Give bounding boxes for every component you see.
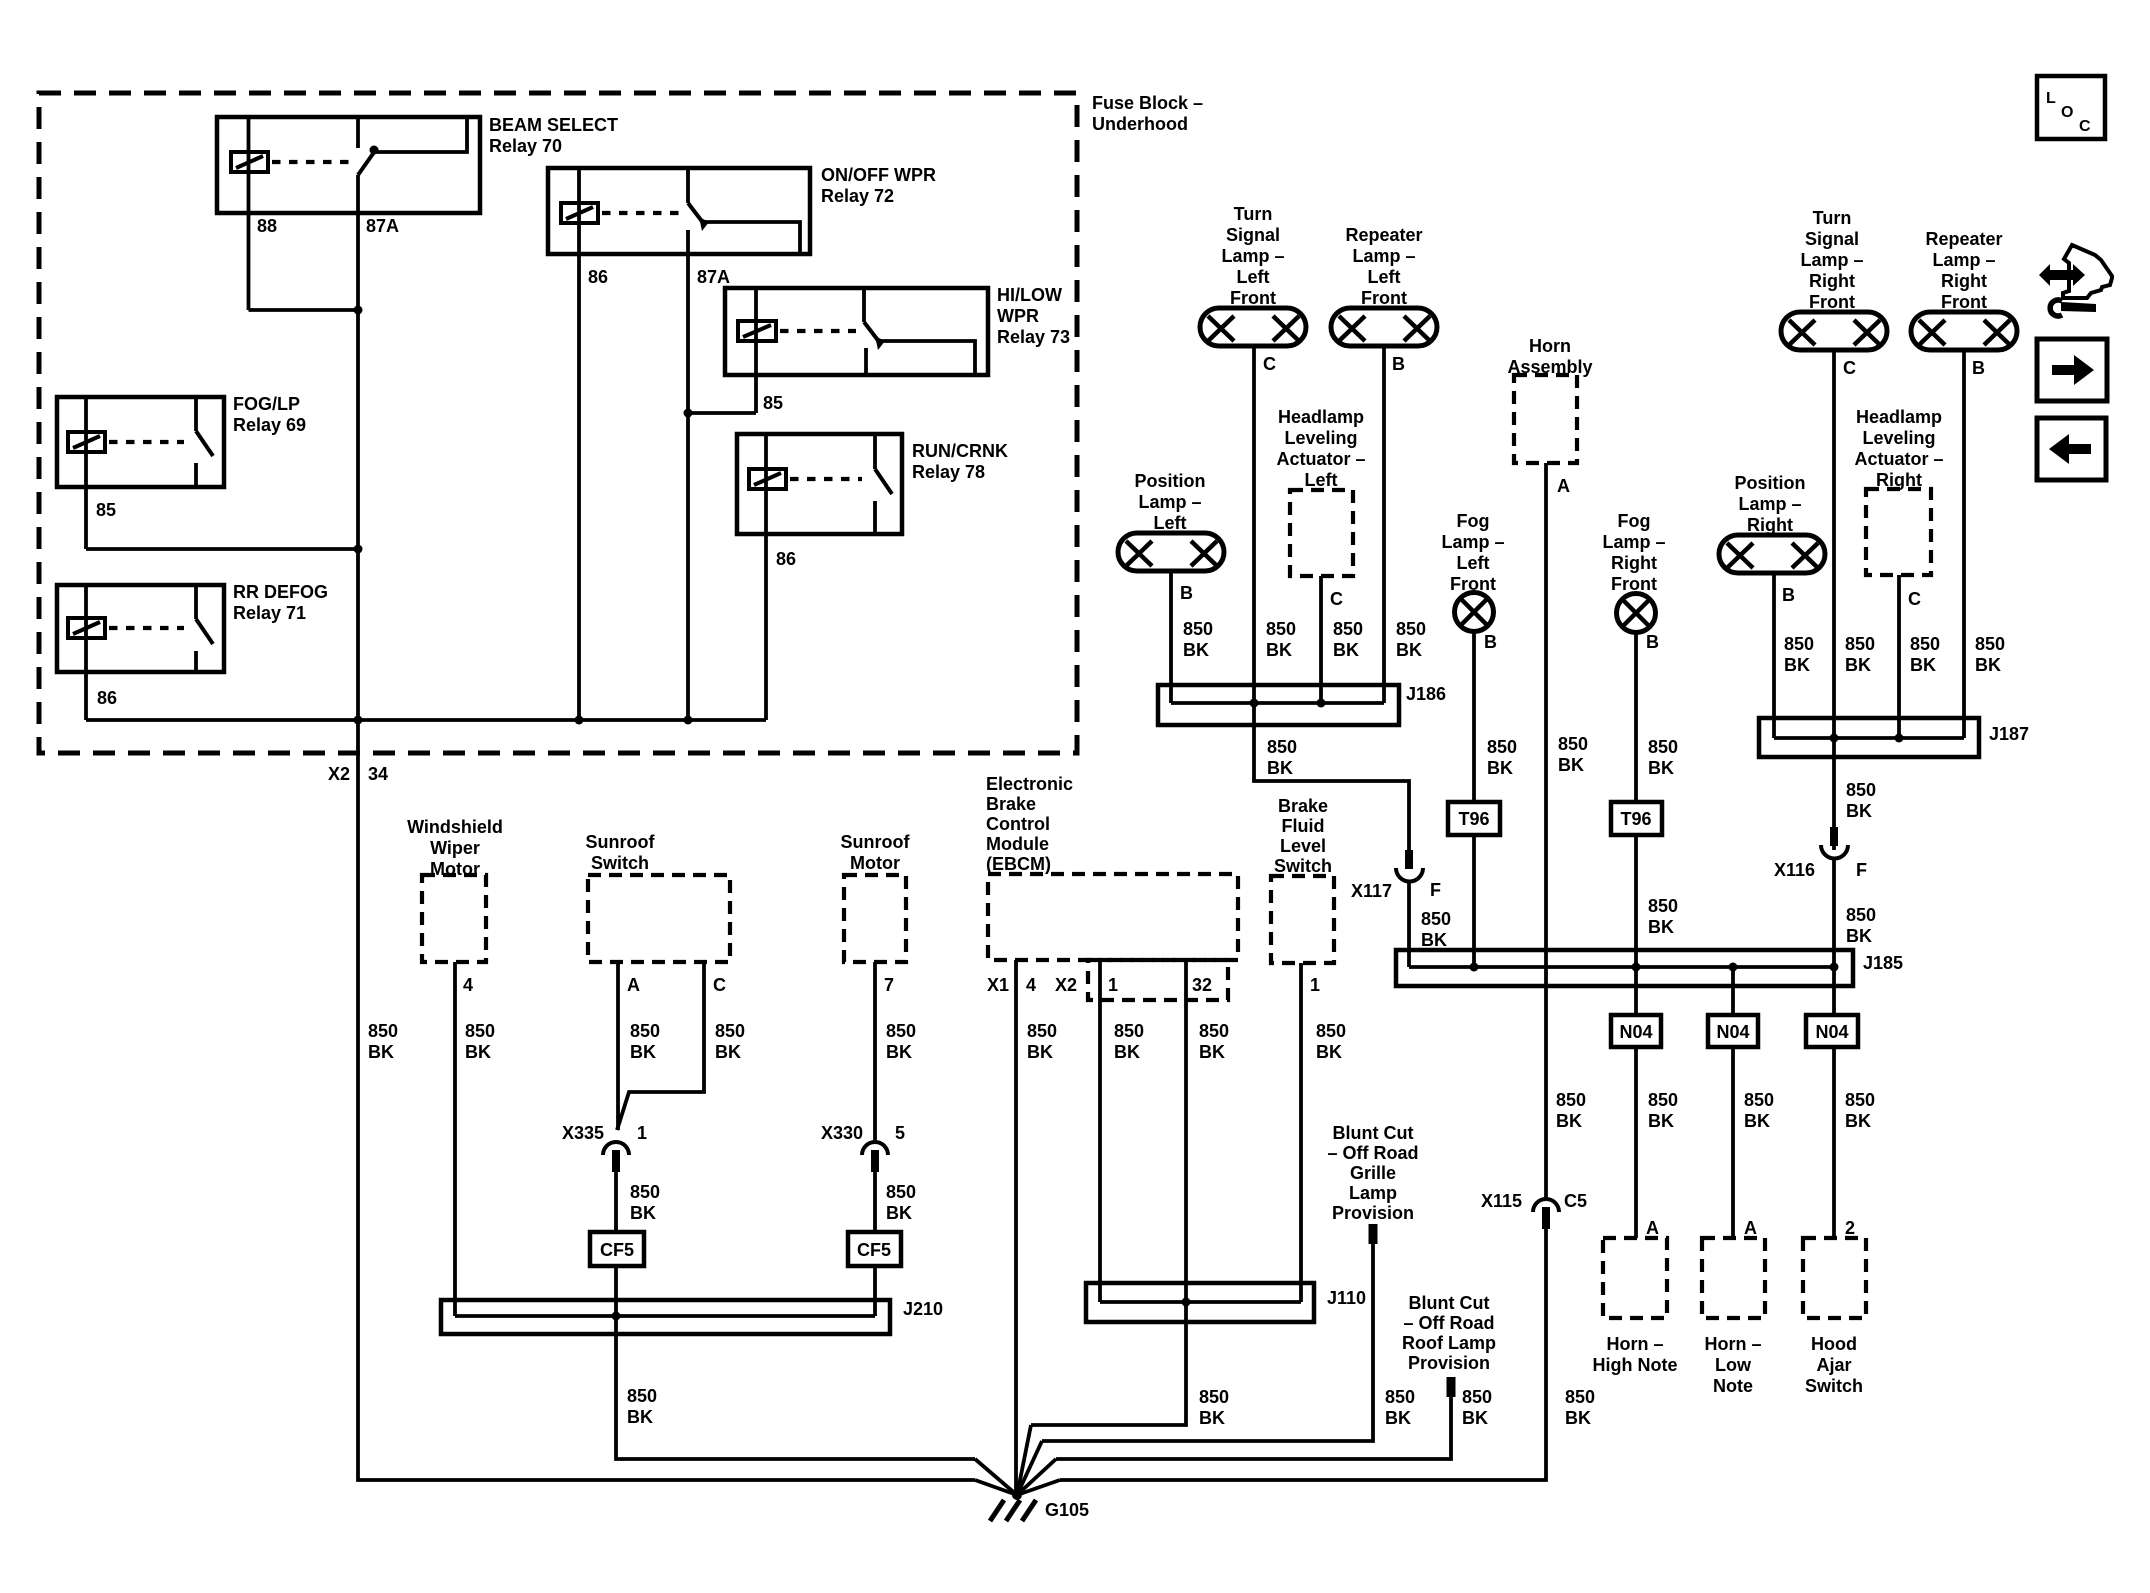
ground G105 symbol bbox=[990, 1490, 1036, 1521]
wire turn signal R to J187 bbox=[1832, 350, 1836, 738]
svg-text:Relay 70: Relay 70 bbox=[489, 136, 562, 156]
wire N04-2 to horn low note bbox=[1731, 1047, 1735, 1238]
relay K78 pin 86 line bbox=[764, 434, 768, 720]
svg-text:850: 850 bbox=[1845, 1090, 1875, 1110]
relay K69 coil bbox=[68, 432, 105, 452]
svg-text:BK: BK bbox=[1462, 1408, 1488, 1428]
wire fog L to T96 bbox=[1472, 632, 1476, 802]
svg-text:Position: Position bbox=[1135, 471, 1206, 491]
svg-text:X330: X330 bbox=[821, 1123, 863, 1143]
wire J185 to N04-2 bbox=[1731, 967, 1735, 1015]
relay K72 switch stub bbox=[686, 168, 690, 203]
svg-text:Lamp –: Lamp – bbox=[1352, 246, 1415, 266]
svg-text:C: C bbox=[1330, 589, 1343, 609]
svg-text:C5: C5 bbox=[1564, 1191, 1587, 1211]
svg-text:– Off Road: – Off Road bbox=[1327, 1143, 1418, 1163]
svg-text:2: 2 bbox=[1845, 1218, 1855, 1238]
svg-text:850: 850 bbox=[1267, 737, 1297, 757]
diagnostic icon double arrow bbox=[2039, 264, 2085, 286]
svg-text:1: 1 bbox=[1310, 975, 1320, 995]
svg-text:BK: BK bbox=[1183, 640, 1209, 660]
svg-text:J187: J187 bbox=[1989, 724, 2029, 744]
svg-text:BK: BK bbox=[1385, 1408, 1411, 1428]
svg-text:850: 850 bbox=[1558, 734, 1588, 754]
svg-text:X115: X115 bbox=[1481, 1191, 1522, 1211]
svg-text:Leveling: Leveling bbox=[1284, 428, 1357, 448]
svg-text:850: 850 bbox=[715, 1021, 745, 1041]
svg-text:Control: Control bbox=[986, 814, 1050, 834]
relay K70 switch stub bbox=[356, 117, 360, 148]
svg-text:B: B bbox=[1392, 354, 1405, 374]
svg-text:Repeater: Repeater bbox=[1925, 229, 2002, 249]
svg-text:BK: BK bbox=[1556, 1111, 1582, 1131]
svg-text:850: 850 bbox=[1846, 905, 1876, 925]
junction dot J185/N04-2 bbox=[1729, 963, 1738, 972]
svg-text:850: 850 bbox=[1845, 634, 1875, 654]
svg-text:A: A bbox=[627, 975, 640, 995]
svg-text:– Off Road: – Off Road bbox=[1403, 1313, 1494, 1333]
relay K72 pin 87 link bbox=[703, 222, 800, 254]
J110 internal bus bbox=[1100, 1300, 1301, 1304]
svg-text:Lamp –: Lamp – bbox=[1441, 532, 1504, 552]
wire blunt cut grille to ground run bbox=[1042, 1244, 1373, 1441]
hood ajar switch dashed box bbox=[1803, 1238, 1866, 1318]
sunroof switch dashed box bbox=[588, 875, 730, 962]
junction dot J187/actuator R bbox=[1895, 734, 1904, 743]
svg-text:BK: BK bbox=[1421, 930, 1447, 950]
svg-text:L: L bbox=[2046, 90, 2056, 107]
svg-text:Front: Front bbox=[1361, 288, 1407, 308]
svg-text:BK: BK bbox=[1114, 1042, 1140, 1062]
svg-text:Ajar: Ajar bbox=[1816, 1355, 1851, 1375]
relay K69 switch stub bbox=[194, 397, 198, 431]
relay K73 HI/LOW WPR box bbox=[725, 288, 988, 375]
svg-text:BK: BK bbox=[1846, 801, 1872, 821]
svg-text:Left: Left bbox=[1457, 553, 1490, 573]
relay K70 switch arm bbox=[358, 148, 377, 175]
relay K72 common 87A wire down bbox=[686, 230, 690, 720]
svg-text:850: 850 bbox=[886, 1182, 916, 1202]
svg-text:C: C bbox=[1263, 354, 1276, 374]
relay K70 coil bbox=[231, 152, 268, 172]
turn signal lamp right front symbol bbox=[1781, 312, 1887, 350]
svg-text:850: 850 bbox=[627, 1386, 657, 1406]
svg-text:Motor: Motor bbox=[430, 859, 480, 879]
svg-text:BK: BK bbox=[1648, 1111, 1674, 1131]
svg-text:A: A bbox=[1646, 1218, 1659, 1238]
ground bus inside fuse block bbox=[86, 718, 766, 722]
svg-text:B: B bbox=[1972, 358, 1985, 378]
splice pack J187 bbox=[1759, 718, 1979, 757]
svg-text:J110: J110 bbox=[1327, 1288, 1366, 1308]
brake fluid level switch dashed box bbox=[1271, 876, 1334, 963]
svg-text:Headlamp: Headlamp bbox=[1856, 407, 1942, 427]
svg-text:Sunroof: Sunroof bbox=[586, 832, 656, 852]
wire X335 to CF5 bbox=[614, 1172, 618, 1232]
svg-text:850: 850 bbox=[1199, 1021, 1229, 1041]
svg-text:1: 1 bbox=[637, 1123, 647, 1143]
junction dot J185/T96 L bbox=[1470, 963, 1479, 972]
svg-text:87A: 87A bbox=[697, 267, 730, 287]
svg-text:BK: BK bbox=[1199, 1042, 1225, 1062]
svg-text:Provision: Provision bbox=[1408, 1353, 1490, 1373]
svg-text:86: 86 bbox=[776, 549, 796, 569]
wire blunt cut roof to ground run bbox=[1056, 1397, 1451, 1459]
svg-text:850: 850 bbox=[1648, 896, 1678, 916]
svg-text:Provision: Provision bbox=[1332, 1203, 1414, 1223]
svg-text:B: B bbox=[1646, 632, 1659, 652]
fuse T96 (fog lamp right) bbox=[1611, 802, 1662, 835]
svg-text:T96: T96 bbox=[1620, 809, 1651, 829]
splice pack J185 bbox=[1396, 950, 1853, 986]
wire K69 pin85 to trunk bbox=[86, 547, 358, 551]
fuse CF5 (sunroof motor) bbox=[848, 1232, 901, 1266]
svg-text:BK: BK bbox=[1266, 640, 1292, 660]
junction dot J110/X2-32 bbox=[1182, 1298, 1191, 1307]
relay K78 lower contact stub bbox=[873, 501, 877, 534]
svg-text:Relay 72: Relay 72 bbox=[821, 186, 894, 206]
svg-text:850: 850 bbox=[1744, 1090, 1774, 1110]
svg-text:WPR: WPR bbox=[997, 306, 1039, 326]
junction dot J210/sunroof switch wire bbox=[612, 1312, 621, 1321]
svg-text:N04: N04 bbox=[1619, 1022, 1652, 1042]
svg-text:850: 850 bbox=[886, 1021, 916, 1041]
relay K69 FOG/LP box bbox=[57, 397, 224, 487]
backward arrow icon box bbox=[2037, 418, 2106, 480]
wire X116 to J185 bbox=[1832, 859, 1836, 967]
fuse block underhood dashed enclosure bbox=[39, 93, 1077, 753]
svg-text:B: B bbox=[1484, 632, 1497, 652]
svg-text:Left: Left bbox=[1305, 470, 1338, 490]
svg-text:BK: BK bbox=[1396, 640, 1422, 660]
junction dot J185/X116 bbox=[1830, 963, 1839, 972]
relay K72 switch arm tip bbox=[699, 217, 709, 231]
svg-text:T96: T96 bbox=[1458, 809, 1489, 829]
svg-text:4: 4 bbox=[463, 975, 473, 995]
relay K72 switch arm bbox=[688, 203, 704, 224]
relay K73 switch stub bbox=[862, 288, 866, 322]
wire horn assembly through J185 to X115 bbox=[1544, 463, 1548, 1200]
svg-text:Underhood: Underhood bbox=[1092, 114, 1188, 134]
svg-text:Switch: Switch bbox=[1274, 856, 1332, 876]
junction dot J186/actuator L bbox=[1317, 699, 1326, 708]
svg-text:Switch: Switch bbox=[591, 853, 649, 873]
svg-text:4: 4 bbox=[1026, 975, 1036, 995]
ground fan-in diagonals to G105 bbox=[975, 1459, 1017, 1495]
forward arrow bbox=[2052, 355, 2094, 385]
position lamp right symbol bbox=[1719, 535, 1825, 573]
svg-text:Roof Lamp: Roof Lamp bbox=[1402, 1333, 1496, 1353]
svg-text:850: 850 bbox=[1266, 619, 1296, 639]
wire BFLS to J110 bbox=[1299, 963, 1303, 1302]
svg-text:BK: BK bbox=[1648, 758, 1674, 778]
svg-text:C: C bbox=[1843, 358, 1856, 378]
svg-text:Right: Right bbox=[1747, 515, 1793, 535]
wire sunroof switch pin C bbox=[617, 962, 704, 1130]
svg-text:Lamp –: Lamp – bbox=[1138, 492, 1201, 512]
relay K72 ON/OFF WPR box bbox=[548, 168, 810, 254]
repeater lamp right front symbol bbox=[1911, 312, 2017, 350]
relay K73 coil bbox=[738, 321, 776, 341]
svg-text:BK: BK bbox=[1558, 755, 1584, 775]
svg-text:C: C bbox=[1908, 589, 1921, 609]
location icon box LOC bbox=[2037, 76, 2105, 139]
svg-text:Blunt Cut: Blunt Cut bbox=[1409, 1293, 1490, 1313]
svg-text:BK: BK bbox=[630, 1203, 656, 1223]
svg-text:BK: BK bbox=[630, 1042, 656, 1062]
junction dot J185/fog R bbox=[1632, 963, 1641, 972]
wire CF5 to J210 bbox=[873, 1266, 877, 1316]
repeater lamp left front symbol bbox=[1331, 308, 1437, 346]
connector X115 bbox=[1533, 1199, 1559, 1229]
fuse T96 (fog lamp left) bbox=[1448, 802, 1500, 835]
svg-text:34: 34 bbox=[368, 764, 388, 784]
wire X115 to ground run bbox=[1060, 1229, 1546, 1480]
svg-text:FOG/LP: FOG/LP bbox=[233, 394, 300, 414]
svg-text:BK: BK bbox=[1199, 1408, 1225, 1428]
diagnostic icon outline shape bbox=[2063, 245, 2112, 298]
svg-text:85: 85 bbox=[96, 500, 116, 520]
diagnostic icon wrench bbox=[2050, 300, 2096, 316]
relay K71 RR DEFOG box bbox=[57, 585, 224, 672]
svg-text:X2: X2 bbox=[1055, 975, 1077, 995]
relay K73 switch arm bbox=[864, 322, 880, 343]
relay K78 switch arm bbox=[875, 469, 892, 494]
svg-text:32: 32 bbox=[1192, 975, 1212, 995]
svg-text:BK: BK bbox=[886, 1042, 912, 1062]
wire position R to J187 bbox=[1772, 573, 1776, 738]
svg-text:850: 850 bbox=[465, 1021, 495, 1041]
svg-text:J185: J185 bbox=[1863, 953, 1903, 973]
turn signal lamp left front symbol bbox=[1200, 308, 1306, 346]
svg-text:Relay 78: Relay 78 bbox=[912, 462, 985, 482]
relay K73 switch arm tip bbox=[875, 336, 885, 350]
svg-text:CF5: CF5 bbox=[600, 1240, 634, 1260]
wire sunroof motor pin7 bbox=[873, 962, 877, 1142]
wire N04-1 to horn high note bbox=[1634, 1047, 1638, 1238]
svg-text:A: A bbox=[1744, 1218, 1757, 1238]
junction dot bus/trunk bbox=[354, 716, 363, 725]
svg-text:Right: Right bbox=[1809, 271, 1855, 291]
svg-text:BK: BK bbox=[1846, 926, 1872, 946]
svg-text:N04: N04 bbox=[1815, 1022, 1848, 1042]
splice pack J210 bbox=[441, 1300, 890, 1334]
svg-text:850: 850 bbox=[368, 1021, 398, 1041]
headlamp leveling actuator left dashed box bbox=[1290, 490, 1353, 576]
windshield wiper motor dashed box bbox=[422, 875, 486, 962]
wire fog R to T96 bbox=[1634, 633, 1638, 802]
fog lamp right front symbol bbox=[1617, 594, 1656, 633]
svg-text:Module: Module bbox=[986, 834, 1049, 854]
svg-text:Actuator –: Actuator – bbox=[1854, 449, 1943, 469]
J186 internal bus bbox=[1171, 701, 1384, 705]
wire EBCM X2-32 through J110 to ground run bbox=[1031, 960, 1186, 1425]
sunroof motor dashed box bbox=[844, 875, 906, 962]
svg-text:Note: Note bbox=[1713, 1376, 1753, 1396]
svg-text:BK: BK bbox=[627, 1407, 653, 1427]
splice pack J110 bbox=[1086, 1283, 1314, 1322]
svg-text:BK: BK bbox=[1267, 758, 1293, 778]
svg-text:J210: J210 bbox=[903, 1299, 943, 1319]
svg-text:High Note: High Note bbox=[1593, 1355, 1678, 1375]
relay K69 coil dashed link bbox=[109, 440, 184, 444]
svg-text:Actuator –: Actuator – bbox=[1276, 449, 1365, 469]
connector X116 bbox=[1821, 827, 1848, 859]
svg-text:Blunt Cut: Blunt Cut bbox=[1333, 1123, 1414, 1143]
wire sunroof switch pin A bbox=[616, 962, 620, 1130]
wire position L to J186 bbox=[1169, 571, 1173, 703]
forward arrow icon box bbox=[2037, 339, 2107, 401]
svg-text:Relay 69: Relay 69 bbox=[233, 415, 306, 435]
svg-text:G105: G105 bbox=[1045, 1500, 1089, 1520]
junction dot bus/K72-86 bbox=[575, 716, 584, 725]
connector X330 bbox=[862, 1142, 888, 1172]
relay K71 coil bbox=[68, 618, 105, 638]
svg-text:(EBCM): (EBCM) bbox=[986, 854, 1051, 874]
svg-text:Level: Level bbox=[1280, 836, 1326, 856]
relay K72 coil bbox=[561, 203, 598, 223]
svg-text:Right: Right bbox=[1611, 553, 1657, 573]
svg-text:Headlamp: Headlamp bbox=[1278, 407, 1364, 427]
svg-text:850: 850 bbox=[1462, 1387, 1492, 1407]
relay K71 switch stub bbox=[194, 585, 198, 619]
svg-text:A: A bbox=[1557, 476, 1570, 496]
relay K71 pin 86 line bbox=[84, 585, 88, 720]
relay K70 pin 87 link bbox=[375, 117, 467, 152]
svg-text:Horn –: Horn – bbox=[1606, 1334, 1663, 1354]
svg-text:F: F bbox=[1856, 860, 1867, 880]
svg-text:850: 850 bbox=[1183, 619, 1213, 639]
svg-text:Sunroof: Sunroof bbox=[841, 832, 911, 852]
J185 internal bus bbox=[1409, 965, 1835, 969]
relay K71 switch arm bbox=[196, 619, 213, 644]
horn high note dashed box bbox=[1603, 1238, 1667, 1318]
relay K70 BEAM SELECT box bbox=[217, 117, 480, 213]
svg-text:BK: BK bbox=[715, 1042, 741, 1062]
svg-text:ON/OFF WPR: ON/OFF WPR bbox=[821, 165, 936, 185]
svg-text:Right: Right bbox=[1941, 271, 1987, 291]
junction dot bus/K72-87A bbox=[684, 716, 693, 725]
svg-text:Electronic: Electronic bbox=[986, 774, 1073, 794]
svg-text:C: C bbox=[2079, 118, 2091, 135]
svg-text:Signal: Signal bbox=[1805, 229, 1859, 249]
svg-text:Left: Left bbox=[1154, 513, 1187, 533]
svg-text:C: C bbox=[713, 975, 726, 995]
svg-text:J186: J186 bbox=[1406, 684, 1446, 704]
svg-text:Signal: Signal bbox=[1226, 225, 1280, 245]
relay K78 coil bbox=[749, 469, 786, 489]
connector X117 bbox=[1396, 850, 1423, 882]
svg-text:BK: BK bbox=[465, 1042, 491, 1062]
junction dot J187/turn R bbox=[1830, 734, 1839, 743]
svg-text:850: 850 bbox=[1316, 1021, 1346, 1041]
blunt cut roof wire end bbox=[1447, 1377, 1456, 1397]
wire T96 right through J185 to N04 bbox=[1634, 835, 1638, 1015]
svg-text:Relay 73: Relay 73 bbox=[997, 327, 1070, 347]
relay K69 lower contact stub bbox=[194, 463, 198, 487]
EBCM dashed box bbox=[988, 874, 1238, 960]
relay K73 pin 85 line bbox=[754, 288, 758, 413]
relay K73 pin 87 link bbox=[879, 341, 975, 375]
svg-text:Fog: Fog bbox=[1457, 511, 1490, 531]
connector X335 bbox=[603, 1142, 629, 1172]
headlamp leveling actuator right dashed box bbox=[1866, 489, 1931, 575]
relay K70 switch pivot dot bbox=[370, 146, 379, 155]
svg-text:Low: Low bbox=[1715, 1355, 1752, 1375]
svg-text:X335: X335 bbox=[562, 1123, 604, 1143]
svg-text:850: 850 bbox=[1487, 737, 1517, 757]
svg-text:BK: BK bbox=[1975, 655, 2001, 675]
fog lamp left front symbol bbox=[1455, 593, 1494, 632]
svg-text:Left: Left bbox=[1237, 267, 1270, 287]
svg-text:Left: Left bbox=[1368, 267, 1401, 287]
relay K70 common 87A wire down to bus bbox=[356, 175, 360, 720]
svg-text:Brake: Brake bbox=[986, 794, 1036, 814]
svg-text:Fluid: Fluid bbox=[1282, 816, 1325, 836]
svg-text:850: 850 bbox=[1975, 634, 2005, 654]
wire pin 88 to trunk bbox=[249, 308, 359, 312]
svg-text:Horn: Horn bbox=[1529, 336, 1571, 356]
svg-text:Lamp –: Lamp – bbox=[1602, 532, 1665, 552]
svg-text:Switch: Switch bbox=[1805, 1376, 1863, 1396]
wire N04-3 to hood ajar switch bbox=[1832, 1047, 1836, 1238]
svg-text:Motor: Motor bbox=[850, 853, 900, 873]
connector N04 (hood ajar switch) bbox=[1806, 1015, 1858, 1047]
wire EBCM X2-1 to J110 bbox=[1098, 960, 1102, 1302]
svg-text:85: 85 bbox=[763, 393, 783, 413]
wire turn signal L to J186 bbox=[1252, 346, 1256, 703]
svg-text:Lamp: Lamp bbox=[1349, 1183, 1397, 1203]
trunk wire X2-34 down to ground run bbox=[358, 720, 975, 1480]
svg-text:Windshield: Windshield bbox=[407, 817, 503, 837]
svg-text:850: 850 bbox=[1846, 780, 1876, 800]
svg-text:Relay 71: Relay 71 bbox=[233, 603, 306, 623]
svg-text:850: 850 bbox=[1385, 1387, 1415, 1407]
blunt cut grille wire end bbox=[1369, 1224, 1378, 1244]
wire K73 pin85 to K72 87A bbox=[688, 411, 756, 415]
svg-text:850: 850 bbox=[1421, 909, 1451, 929]
svg-text:BK: BK bbox=[1333, 640, 1359, 660]
svg-text:CF5: CF5 bbox=[857, 1240, 891, 1260]
svg-text:850: 850 bbox=[1027, 1021, 1057, 1041]
wire T96 left to J185 bbox=[1472, 835, 1476, 967]
fuse CF5 (sunroof switch) bbox=[590, 1232, 644, 1266]
svg-text:Position: Position bbox=[1735, 473, 1806, 493]
svg-text:87A: 87A bbox=[366, 216, 399, 236]
wire repeater R to J187 bbox=[1962, 350, 1966, 738]
svg-text:BK: BK bbox=[1648, 917, 1674, 937]
svg-text:Brake: Brake bbox=[1278, 796, 1328, 816]
svg-text:850: 850 bbox=[1784, 634, 1814, 654]
svg-text:Leveling: Leveling bbox=[1862, 428, 1935, 448]
svg-text:Lamp –: Lamp – bbox=[1932, 250, 1995, 270]
connector N04 (horn low note) bbox=[1708, 1015, 1758, 1047]
svg-text:Lamp –: Lamp – bbox=[1738, 494, 1801, 514]
svg-text:Front: Front bbox=[1230, 288, 1276, 308]
svg-text:86: 86 bbox=[588, 267, 608, 287]
relay K70 coil dashed link bbox=[272, 160, 352, 164]
wire X116 through J185 to N04-3 bbox=[1832, 967, 1836, 1015]
svg-text:850: 850 bbox=[1910, 634, 1940, 654]
svg-text:850: 850 bbox=[1114, 1021, 1144, 1041]
svg-text:B: B bbox=[1782, 585, 1795, 605]
svg-text:BK: BK bbox=[1744, 1111, 1770, 1131]
svg-text:BK: BK bbox=[368, 1042, 394, 1062]
wire actuator L to J186 bbox=[1319, 576, 1323, 703]
EBCM X2 connector dashed sub-box bbox=[1088, 960, 1228, 1000]
svg-text:BEAM SELECT: BEAM SELECT bbox=[489, 115, 618, 135]
junction dot 85/trunk bbox=[354, 545, 363, 554]
